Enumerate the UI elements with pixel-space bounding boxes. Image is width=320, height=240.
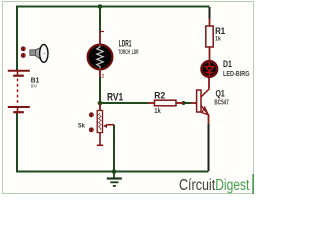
svg-text:RV1: RV1 — [107, 91, 123, 103]
svg-text:TORCH_LDR: TORCH_LDR — [118, 49, 138, 56]
svg-text:B1: B1 — [31, 77, 40, 84]
svg-text:D1: D1 — [223, 59, 232, 69]
svg-text:BC547: BC547 — [214, 97, 228, 106]
svg-text:9V: 9V — [31, 84, 38, 90]
svg-text:R2: R2 — [154, 91, 165, 102]
svg-text:LDR1: LDR1 — [119, 38, 132, 48]
svg-text:R1: R1 — [215, 26, 225, 36]
svg-text:Digest: Digest — [215, 177, 250, 194]
svg-text:5k: 5k — [78, 123, 85, 130]
svg-text:2: 2 — [102, 74, 105, 80]
svg-text:LED-BIRG: LED-BIRG — [223, 69, 250, 78]
svg-text:Círcuit: Círcuit — [179, 177, 216, 194]
svg-text:1k: 1k — [154, 108, 161, 115]
svg-text:1k: 1k — [215, 36, 221, 43]
